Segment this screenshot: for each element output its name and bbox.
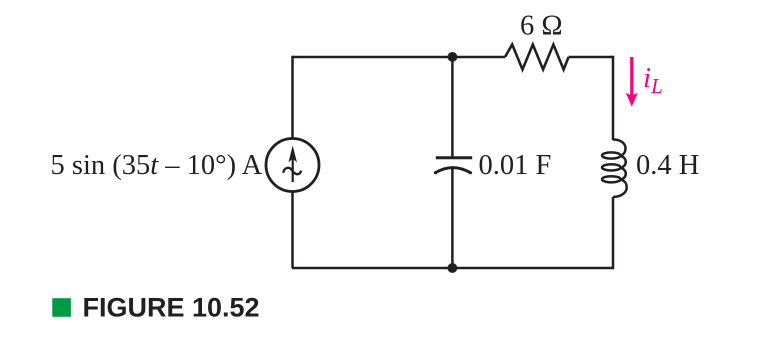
current arrow iL head — [626, 93, 638, 107]
wire right vertical upper (top corner to inductor) — [612, 56, 615, 140]
svg-text:6 Ω: 6 Ω — [520, 11, 563, 42]
wire middle vertical upper (top node to capacitor) — [451, 57, 454, 158]
wire left vertical upper (top corner to source) — [291, 56, 294, 138]
svg-text:5 sin (35t – 10°) A: 5 sin (35t – 10°) A — [51, 150, 263, 181]
current source arrow shaft — [292, 152, 294, 182]
current source I1 circle — [266, 139, 319, 192]
wire left vertical lower (source to bottom corner) — [291, 193, 294, 269]
svg-text:0.01 F: 0.01 F — [479, 150, 552, 181]
svg-text:iL: iL — [643, 62, 663, 98]
inductor L coil — [602, 140, 627, 198]
wire right vertical lower (inductor to bottom corner) — [612, 197, 615, 269]
capacitor C curved bottom plate — [435, 168, 470, 173]
node dot bottom — [448, 263, 458, 273]
wire top-right horizontal (resistor to right corner) — [569, 56, 613, 59]
figure caption green square — [52, 298, 71, 317]
capacitor C top plate — [436, 156, 472, 159]
wire middle vertical lower (capacitor to bottom node) — [451, 167, 454, 268]
wire bottom horizontal — [292, 267, 613, 270]
resistor R 6-ohm zigzag — [505, 45, 569, 70]
svg-text:FIGURE 10.52: FIGURE 10.52 — [83, 293, 260, 323]
node dot top — [448, 52, 458, 62]
svg-text:0.4 H: 0.4 H — [636, 150, 699, 181]
current arrow iL (pink) shaft — [630, 57, 633, 96]
current source arrowhead — [288, 146, 297, 163]
current source sine tilde — [283, 168, 301, 174]
wire top-left horizontal (left corner to resistor) — [292, 56, 505, 59]
